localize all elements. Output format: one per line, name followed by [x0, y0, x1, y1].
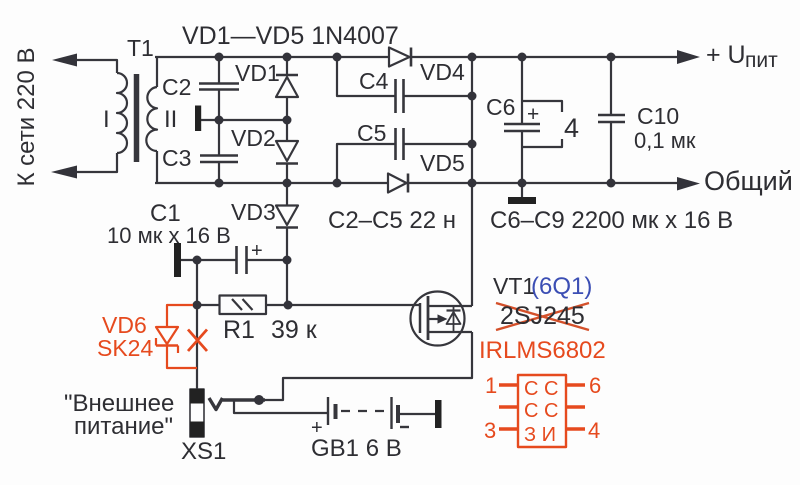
svg-text:VD2: VD2 [231, 125, 276, 151]
svg-text:VD4: VD4 [420, 59, 465, 85]
node C5 right [468, 140, 477, 149]
ground bar (common) [508, 197, 536, 204]
svg-text:4: 4 [588, 418, 600, 443]
node top rail / column [468, 53, 477, 62]
svg-text:C2: C2 [162, 74, 191, 100]
wire: primary top lead [77, 60, 117, 73]
svg-text:1: 1 [485, 373, 497, 398]
wire: common bar to mid node [201, 119, 287, 121]
wire: secondary top lead [156, 57, 158, 87]
wire: bottom rail left segment (secondary bottom to VD5 anode) [155, 182, 388, 184]
svg-text:10 мк х 16 В: 10 мк х 16 В [107, 223, 231, 248]
node R1 right / gate [284, 301, 293, 310]
resistor R1 [197, 296, 288, 315]
svg-text:+: + [527, 103, 539, 126]
wire: C6 node to ground [521, 183, 523, 197]
arrow output common [677, 177, 700, 191]
svg-text:З И: З И [524, 424, 556, 446]
common-rail bar at C2/C3 node [195, 106, 201, 132]
svg-text:XS1: XS1 [181, 438, 226, 465]
svg-text:(6Q1): (6Q1) [531, 273, 592, 300]
node C1 left [193, 256, 202, 265]
battery GB1 [328, 397, 442, 429]
svg-text:39 к: 39 к [271, 316, 318, 344]
wire: battery minus to common bar [398, 413, 435, 415]
svg-text:VD5: VD5 [420, 150, 465, 176]
minus sign [400, 426, 409, 428]
svg-text:IRLMS6802: IRLMS6802 [479, 337, 606, 364]
capacitor C5 [396, 128, 404, 160]
svg-text:4: 4 [564, 113, 579, 143]
svg-text:C10: C10 [637, 103, 679, 129]
cell 2 short plate [396, 405, 400, 423]
svg-text:VD1: VD1 [235, 60, 280, 86]
capacitor C1 [237, 246, 247, 274]
wire: source down and left to XS1 break contact [265, 332, 472, 400]
diode VD1 [276, 57, 298, 120]
arrow to mains bottom [51, 166, 77, 179]
bracket x4 of C6-C9 [523, 101, 562, 147]
wire: top rail left segment (secondary top to VD4 anode) [155, 56, 389, 58]
capacitor C2 [199, 57, 239, 120]
core of T1 [134, 74, 140, 162]
channel bar [427, 296, 430, 340]
node bottom rail / VD2-VD3 [283, 179, 292, 188]
capacitor C10 [598, 57, 625, 183]
svg-text:К сети 220 В: К сети 220 В [13, 48, 40, 187]
svg-text:2SJ245: 2SJ245 [500, 302, 585, 330]
wire: orange loop top [167, 305, 193, 327]
node bottom rail / C5 [333, 179, 342, 188]
winding I (primary) [117, 73, 127, 153]
wire: bar to C1 left plate [181, 259, 237, 261]
common-rail bar at C1 [174, 243, 181, 277]
node bottom rail / drain column [468, 179, 477, 188]
wire: secondary bottom lead [156, 151, 158, 183]
svg-text:VT1: VT1 [493, 273, 535, 299]
node bottom rail / C3 [215, 179, 224, 188]
node bottom rail / C6 [518, 179, 527, 188]
node top rail / C6 [518, 53, 527, 62]
capacitor C3 [200, 120, 238, 183]
svg-text:II: II [164, 106, 177, 133]
node C1 right [283, 256, 292, 265]
diode VD4 [389, 48, 411, 67]
pin 5 lead [566, 405, 585, 409]
wire: VD3/C1 node down to R1 right node [286, 260, 288, 305]
capacitor C6 [504, 57, 540, 183]
svg-text:C4: C4 [359, 68, 389, 94]
plug hook contact [209, 398, 223, 410]
svg-text:C3: C3 [162, 145, 191, 171]
diode VD5 [388, 174, 408, 193]
wire: gate wire R1 to VT1 [288, 304, 420, 306]
svg-text:VD1—VD5 1N4007: VD1—VD5 1N4007 [182, 22, 399, 50]
arrow to mains top [52, 54, 77, 67]
wire: drain to bottom rail [471, 183, 473, 306]
svg-text:пит: пит [745, 49, 778, 72]
pin 4 lead [566, 427, 585, 431]
connector XS1 [190, 389, 265, 437]
svg-text:Общий: Общий [704, 166, 793, 196]
svg-text:+: + [251, 240, 263, 262]
svg-text:C6–C9 2200 мк х 16 В: C6–C9 2200 мк х 16 В [490, 207, 733, 234]
wire: C4 to right column [404, 95, 473, 97]
svg-text:+ U: + U [706, 41, 746, 69]
node top rail / VD1 [283, 53, 292, 62]
wire: C5 to right column [404, 143, 473, 145]
wire: contact to battery plus [234, 401, 328, 413]
svg-text:I: I [103, 106, 110, 133]
cell 2 long plate [390, 397, 392, 429]
orange modification: VD6 loop [156, 303, 589, 447]
pin 2 lead [499, 405, 518, 409]
body diode of VT1 [453, 306, 455, 332]
svg-text:C6: C6 [486, 94, 515, 120]
svg-text:С С: С С [524, 378, 558, 400]
svg-text:T1: T1 [127, 35, 154, 61]
transistor VT1 (p-channel MOSFET) [411, 292, 473, 346]
node top rail / C10 [607, 53, 616, 62]
wire: right multiplier column [471, 57, 473, 183]
capacitor C4 [396, 79, 404, 113]
svg-text:6: 6 [589, 373, 601, 398]
common-rail bar at battery [435, 400, 442, 428]
wire: C5 feed from bottom rail [337, 144, 396, 183]
svg-text:GB1 6 В: GB1 6 В [311, 435, 402, 462]
node top rail / C4 [333, 53, 342, 62]
node mid C2-C3 [215, 116, 224, 125]
svg-text:VD3: VD3 [231, 199, 276, 225]
diode VD6 (Schottky) [156, 327, 178, 344]
svg-text:С С: С С [524, 400, 558, 422]
dashed omitted cells [341, 410, 387, 412]
wire: C4 feed from top rail [337, 57, 396, 96]
winding II (secondary) [146, 87, 157, 151]
node R1 left [193, 301, 202, 310]
wire: C1 right plate to VD3 node [247, 259, 288, 261]
pin 3 lead [499, 427, 518, 431]
svg-text:питание": питание" [74, 413, 173, 440]
wire: orange loop bottom [167, 346, 197, 369]
movable contact lever [223, 398, 266, 402]
source stub [428, 331, 472, 333]
wire: node column down to XS1 [196, 260, 198, 389]
node mid VD1-VD2 [283, 116, 292, 125]
X strike over 2SJ245 [496, 303, 589, 330]
node C4 right [468, 92, 477, 101]
diode VD3 [276, 183, 298, 260]
pin 6 lead [566, 383, 585, 387]
svg-text:C2–C5 22 н: C2–C5 22 н [328, 207, 456, 234]
substrate arrow [428, 318, 438, 320]
X mark deleting wire [188, 330, 207, 352]
gate electrode [419, 303, 422, 333]
svg-text:0,1 мк: 0,1 мк [634, 128, 696, 153]
svg-text:3: 3 [484, 418, 496, 443]
svg-text:R1: R1 [223, 316, 255, 344]
wire: top rail right segment (VD4 cathode to +U output) [411, 56, 678, 58]
diode VD2 [276, 120, 298, 183]
IRLMS6802 pinout box [518, 375, 566, 447]
pin 1 lead [499, 383, 518, 387]
cell 1 long plate [327, 397, 329, 425]
wire: bottom rail right segment (VD5 cathode to common output) [408, 182, 678, 184]
transformer T1 [77, 57, 157, 183]
arrow output +U [677, 50, 700, 64]
node XS1 break contact [254, 395, 264, 405]
drain stub [428, 305, 472, 307]
node bottom rail / C10 [607, 179, 616, 188]
cell 1 short plate [334, 404, 338, 419]
svg-text:SK24: SK24 [97, 335, 153, 361]
svg-text:C5: C5 [357, 120, 386, 146]
wire: primary bottom lead [77, 153, 117, 172]
node top rail / C2 [215, 53, 224, 62]
